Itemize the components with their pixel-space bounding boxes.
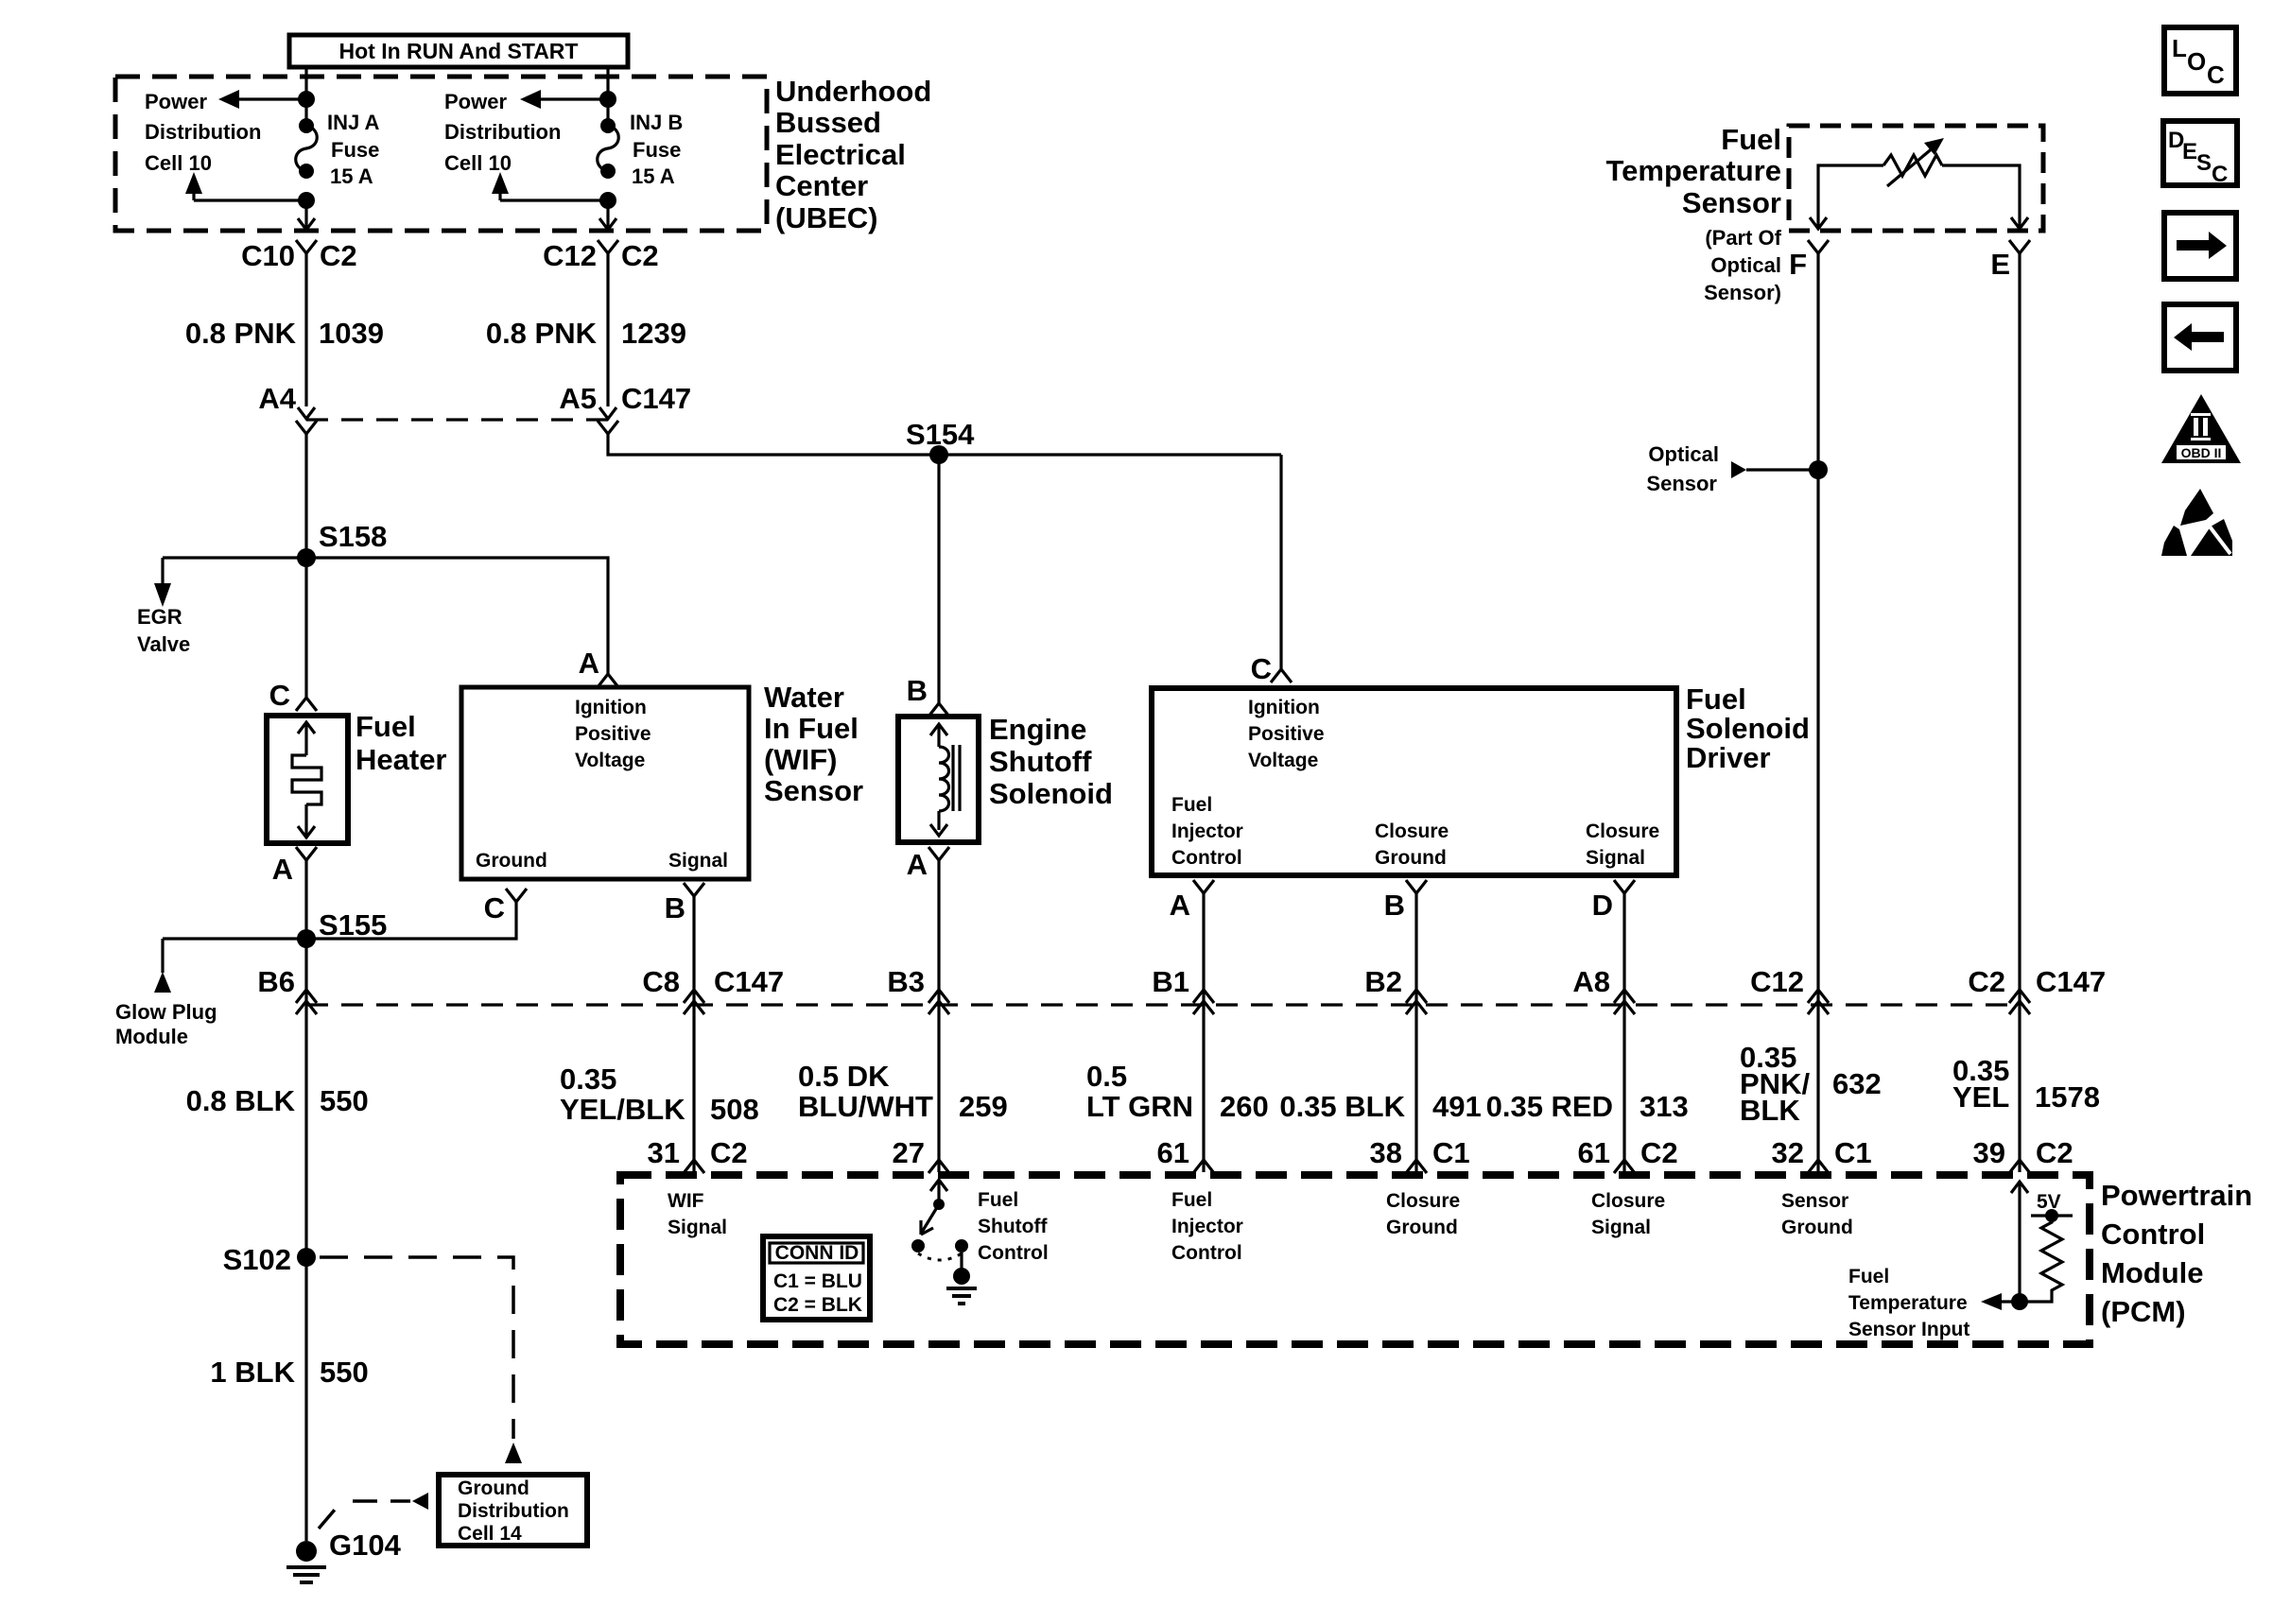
connector caret at PCM entry x=1498 <box>1406 1160 1427 1173</box>
component box: Fuel Solenoid Driver <box>1152 688 1676 875</box>
svg-text:A: A <box>907 848 928 881</box>
svg-text:Bussed: Bussed <box>775 106 881 139</box>
module dashed box: Powertrain Control Module (PCM) <box>620 1175 2090 1344</box>
svg-text:Cell 10: Cell 10 <box>145 151 212 175</box>
svg-text:Distribution: Distribution <box>145 120 261 144</box>
svg-text:C2: C2 <box>320 239 357 272</box>
svg-text:F: F <box>1789 248 1807 281</box>
svg-text:S: S <box>2196 150 2212 176</box>
svg-text:632: 632 <box>1832 1067 1882 1100</box>
svg-text:LT GRN: LT GRN <box>1086 1090 1193 1123</box>
pin A of Engine Shutoff Solenoid <box>928 847 949 860</box>
solenoid coil symbol <box>930 724 947 735</box>
wire: 0.5 DK BLU/WHT 259 down to PCM <box>937 860 940 1172</box>
wire: 0.8 BLK 550 from Fuel Heater pin A down to S102/G104 <box>304 860 307 1541</box>
svg-text:Sensor Input: Sensor Input <box>1848 1319 1969 1340</box>
svg-text:C10: C10 <box>241 239 295 272</box>
wire: A4 down to S158 and Fuel Heater <box>304 434 307 698</box>
svg-text:Positive: Positive <box>575 723 651 745</box>
svg-text:0.8 PNK: 0.8 PNK <box>486 317 598 350</box>
svg-text:Solenoid: Solenoid <box>989 777 1113 810</box>
svg-text:Injector: Injector <box>1171 1216 1243 1237</box>
connector C147 terminal A4 <box>298 407 315 419</box>
connector chevrons at B6 crossing <box>296 990 317 1003</box>
svg-text:Center: Center <box>775 169 868 202</box>
svg-text:Closure: Closure <box>1591 1190 1665 1212</box>
node: junction below fuse B <box>599 192 616 209</box>
svg-text:Driver: Driver <box>1686 741 1771 774</box>
svg-text:C2: C2 <box>1968 965 2005 998</box>
svg-text:Sensor: Sensor <box>1646 472 1717 495</box>
pin A of Fuel Solenoid Driver <box>1193 880 1214 893</box>
node: junction below fuse A <box>298 192 315 209</box>
svg-text:Ground: Ground <box>476 850 547 872</box>
connector caret at PCM entry x=993 <box>928 1160 949 1173</box>
connector chevrons at C2/C147 crossing <box>2009 990 2030 1003</box>
svg-text:S158: S158 <box>319 520 387 553</box>
svg-text:Module: Module <box>2101 1256 2204 1289</box>
svg-text:B3: B3 <box>887 965 925 998</box>
wire: 0.8 PNK 1039 <box>304 253 307 406</box>
sidebar icon: ESD warning triangle <box>2161 489 2232 556</box>
svg-text:(Part Of: (Part Of <box>1705 226 1781 250</box>
node: splice S155 <box>297 929 316 948</box>
svg-text:0.8 PNK: 0.8 PNK <box>185 317 297 350</box>
arrow to Power Distribution Cell 10 (left) <box>218 90 239 109</box>
svg-text:38: 38 <box>1370 1136 1402 1169</box>
svg-text:Fuse: Fuse <box>331 138 379 162</box>
svg-text:Cell 10: Cell 10 <box>444 151 512 175</box>
connector C147 terminal A5 <box>599 407 616 419</box>
connector chevrons at B3 crossing <box>928 990 949 1003</box>
wire: fuse A output exits UBEC <box>304 200 307 229</box>
5V supply rail <box>2031 1214 2073 1217</box>
svg-text:Distribution: Distribution <box>458 1500 569 1522</box>
pin E arrows and fork <box>2011 217 2028 229</box>
node: splice S102 <box>297 1248 316 1267</box>
wire: feed to Power Distribution (left) <box>237 97 306 100</box>
wire: feed from Power Distribution (right, arrow up) <box>500 199 608 201</box>
svg-text:32: 32 <box>1772 1136 1804 1169</box>
arrow from Optical Sensor <box>1731 461 1746 478</box>
node: junction on wire F (optical sensor tap) <box>1809 460 1828 479</box>
wire: fuse B output exits UBEC <box>606 200 609 229</box>
svg-text:A4: A4 <box>258 382 296 415</box>
svg-text:Closure: Closure <box>1586 821 1659 842</box>
wire: A5 down then east to FSD pin C <box>608 434 1281 455</box>
svg-text:Fuel: Fuel <box>1848 1266 1889 1287</box>
pin A of Fuel Heater <box>296 847 317 860</box>
svg-text:1578: 1578 <box>2035 1080 2100 1114</box>
svg-text:61: 61 <box>1157 1136 1189 1169</box>
pin D of Fuel Solenoid Driver <box>1614 880 1635 893</box>
svg-text:C1: C1 <box>1834 1136 1872 1169</box>
component: Fuel Heater <box>267 716 348 843</box>
fuse INJ A 15 A <box>299 118 314 133</box>
sidebar icon: OBD II triangle <box>2161 394 2241 463</box>
svg-text:C147: C147 <box>714 965 784 998</box>
svg-text:0.5: 0.5 <box>1086 1060 1127 1093</box>
connector C147 inline (dashed tie line) <box>306 418 608 421</box>
svg-text:Control: Control <box>978 1242 1049 1264</box>
svg-text:E: E <box>1990 248 2010 281</box>
switch: fuel shutoff control inside PCM <box>930 1180 947 1191</box>
svg-text:Electrical: Electrical <box>775 138 906 171</box>
connector caret at PCM entry x=1718 <box>1614 1160 1635 1173</box>
svg-text:Power: Power <box>145 90 207 113</box>
svg-text:Signal: Signal <box>1586 847 1645 869</box>
svg-text:BLU/WHT: BLU/WHT <box>798 1090 933 1123</box>
svg-text:(PCM): (PCM) <box>2101 1295 2186 1328</box>
svg-text:C2: C2 <box>621 239 659 272</box>
svg-text:Control: Control <box>1171 1242 1242 1264</box>
connector chevrons at B2 crossing <box>1406 990 1427 1003</box>
svg-text:C: C <box>484 891 505 924</box>
svg-text:Sensor: Sensor <box>1781 1190 1848 1212</box>
svg-text:Closure: Closure <box>1386 1190 1460 1212</box>
wire: S158 branch west to EGR Valve <box>163 556 306 559</box>
wire: S155 branch west to Glow Plug Module <box>163 937 306 940</box>
svg-text:A5: A5 <box>559 382 597 415</box>
thermistor element inside sensor <box>1818 165 1883 229</box>
svg-text:A: A <box>1170 889 1190 922</box>
svg-text:Signal: Signal <box>668 1217 727 1238</box>
svg-text:Ground: Ground <box>458 1477 529 1499</box>
pin C of Fuel Heater <box>296 698 317 711</box>
svg-text:15 A: 15 A <box>632 164 675 188</box>
wire: Hot box to fuse INJ A <box>304 67 307 126</box>
svg-text:Optical: Optical <box>1648 442 1719 466</box>
resistor: 5V pull-up <box>2020 1216 2062 1302</box>
svg-text:YEL/BLK: YEL/BLK <box>560 1093 685 1126</box>
sidebar icon: DESC <box>2163 121 2237 187</box>
ground G104 <box>296 1541 317 1562</box>
wire: 0.8 PNK 1239 <box>606 253 609 406</box>
node: junction above fuse A <box>298 91 315 108</box>
svg-text:B1: B1 <box>1152 965 1189 998</box>
wire: 0.35 RED 313 down to PCM <box>1622 893 1625 1172</box>
svg-text:C12: C12 <box>543 239 597 272</box>
svg-text:C: C <box>1251 652 1272 685</box>
svg-text:CONN ID: CONN ID <box>775 1242 859 1264</box>
wire: 0.35 BLK 491 down to PCM <box>1414 893 1417 1172</box>
svg-text:C12: C12 <box>1750 965 1804 998</box>
svg-text:313: 313 <box>1640 1090 1689 1123</box>
svg-text:1239: 1239 <box>621 317 686 350</box>
svg-text:C8: C8 <box>642 965 680 998</box>
sidebar icon: LOC <box>2164 27 2236 94</box>
node: junction above fuse B <box>599 91 616 108</box>
svg-text:A8: A8 <box>1572 965 1610 998</box>
svg-text:550: 550 <box>320 1356 369 1389</box>
svg-text:Ground: Ground <box>1386 1217 1458 1238</box>
svg-text:Fuel: Fuel <box>1171 1189 1212 1211</box>
connector caret at PCM entry x=1923 <box>1808 1160 1829 1173</box>
svg-text:Sensor): Sensor) <box>1704 281 1781 304</box>
svg-text:C: C <box>2207 60 2225 89</box>
svg-text:WIF: WIF <box>668 1190 704 1212</box>
variable-resistor arrow <box>1887 147 1935 186</box>
svg-text:Injector: Injector <box>1171 821 1243 842</box>
svg-text:C2: C2 <box>1640 1136 1678 1169</box>
svg-text:Fuel: Fuel <box>1171 794 1212 816</box>
wire: feed to Power Distribution (right) <box>539 97 608 100</box>
svg-text:0.5 DK: 0.5 DK <box>798 1060 890 1093</box>
svg-text:Ignition: Ignition <box>575 697 647 718</box>
svg-text:In Fuel: In Fuel <box>764 712 859 745</box>
svg-text:0.8 BLK: 0.8 BLK <box>186 1084 296 1117</box>
svg-text:S102: S102 <box>223 1243 291 1276</box>
svg-text:Fuel: Fuel <box>978 1189 1018 1211</box>
connector C2 terminal C12 (fork) <box>598 240 618 253</box>
svg-text:B: B <box>907 674 928 707</box>
svg-text:S155: S155 <box>319 908 387 942</box>
arrow from Glow Plug Module <box>154 972 171 993</box>
svg-text:(WIF): (WIF) <box>764 743 837 776</box>
wire: 0.5 LT GRN 260 down to PCM <box>1202 893 1205 1172</box>
dashed reference from G104 to Ground Distribution box <box>319 1501 410 1529</box>
sidebar icon: right arrow <box>2164 213 2236 279</box>
svg-text:61: 61 <box>1578 1136 1610 1169</box>
svg-text:B: B <box>665 891 685 924</box>
svg-text:0.35: 0.35 <box>560 1063 616 1096</box>
svg-text:Water: Water <box>764 681 844 714</box>
svg-text:O: O <box>2187 47 2206 76</box>
svg-text:260: 260 <box>1220 1090 1269 1123</box>
pin B of Engine Shutoff Solenoid <box>928 703 949 717</box>
svg-text:Fuel: Fuel <box>1721 123 1781 156</box>
wire: S158 branch east to WIF sensor pin A <box>306 558 608 674</box>
svg-text:INJ A: INJ A <box>327 111 380 134</box>
pin A of WIF sensor <box>598 674 618 687</box>
svg-text:EGR: EGR <box>137 605 182 629</box>
svg-text:Cell 14: Cell 14 <box>458 1523 522 1545</box>
svg-text:Control: Control <box>2101 1218 2205 1251</box>
svg-text:Fuse: Fuse <box>633 138 681 162</box>
wire: feed from Power Distribution (left, arrow up) <box>194 199 306 201</box>
svg-text:(UBEC): (UBEC) <box>775 201 878 234</box>
arrow to Power Distribution Cell 10 (right) <box>520 90 541 109</box>
svg-text:39: 39 <box>1973 1136 2005 1169</box>
svg-text:Heater: Heater <box>356 743 447 776</box>
pin C of Fuel Solenoid Driver <box>1271 669 1292 682</box>
wire: 0.35 PNK/BLK 632 from pin F down to PCM <box>1816 253 1819 1172</box>
svg-text:259: 259 <box>959 1090 1008 1123</box>
svg-text:C1: C1 <box>1432 1136 1470 1169</box>
svg-text:C2: C2 <box>2036 1136 2073 1169</box>
svg-text:Power: Power <box>444 90 507 113</box>
svg-text:Fuel: Fuel <box>356 710 416 743</box>
svg-text:B6: B6 <box>257 965 295 998</box>
svg-text:15 A: 15 A <box>330 164 373 188</box>
arrow down to EGR Valve <box>154 583 171 607</box>
svg-text:C: C <box>2212 162 2228 187</box>
connector C2 terminal C10 (fork) <box>296 240 317 253</box>
svg-text:Distribution: Distribution <box>444 120 561 144</box>
svg-text:Ground: Ground <box>1781 1217 1853 1238</box>
svg-text:Sensor: Sensor <box>764 774 863 807</box>
wire: 0.35 YEL 1578 from pin E down to PCM <box>2018 253 2021 1172</box>
svg-text:Shutoff: Shutoff <box>978 1216 1048 1237</box>
pin F arrows and fork <box>1810 217 1827 229</box>
svg-text:Ignition: Ignition <box>1248 697 1320 718</box>
svg-text:Signal: Signal <box>1591 1217 1651 1238</box>
svg-text:A: A <box>272 853 293 886</box>
svg-text:491: 491 <box>1432 1090 1482 1123</box>
connector chevrons at C12 crossing <box>1808 990 1829 1003</box>
svg-text:1 BLK: 1 BLK <box>210 1356 295 1389</box>
svg-text:Ground: Ground <box>1375 847 1447 869</box>
connector caret at PCM entry x=1273 <box>1193 1160 1214 1173</box>
connector C147 inline harness (dashed tie line across page) <box>306 1003 2020 1006</box>
svg-text:C1 = BLU: C1 = BLU <box>773 1270 862 1292</box>
power source box: Hot In RUN And START <box>289 35 628 67</box>
svg-text:L: L <box>2172 34 2187 62</box>
CONN ID legend box <box>763 1236 870 1320</box>
svg-text:508: 508 <box>710 1093 759 1126</box>
component dashed box: Fuel Temperature Sensor <box>1789 126 2043 231</box>
svg-text:Closure: Closure <box>1375 821 1449 842</box>
svg-text:Valve: Valve <box>137 632 190 656</box>
wire: down to FSD pin C <box>1279 455 1282 669</box>
svg-text:0.35 RED: 0.35 RED <box>1486 1090 1613 1123</box>
component box: Engine Shutoff Solenoid <box>898 717 979 842</box>
wire: S154 down to Engine Shutoff Solenoid pin B <box>937 455 940 703</box>
svg-text:C147: C147 <box>2036 965 2106 998</box>
svg-text:INJ B: INJ B <box>630 111 683 134</box>
svg-text:Temperature: Temperature <box>1606 154 1782 187</box>
svg-text:G104: G104 <box>329 1529 402 1562</box>
svg-text:550: 550 <box>320 1084 369 1117</box>
svg-text:C147: C147 <box>621 382 691 415</box>
pin B of WIF sensor (Signal) <box>684 883 704 896</box>
svg-text:Temperature: Temperature <box>1848 1292 1968 1314</box>
arrow: Fuel Temperature Sensor Input <box>2002 1300 2020 1303</box>
svg-text:Voltage: Voltage <box>575 750 645 771</box>
wire: 0.35 YEL/BLK 508 WIF signal down to PCM <box>692 896 695 1172</box>
connector caret at PCM entry x=734 <box>684 1160 704 1173</box>
svg-text:Control: Control <box>1171 847 1242 869</box>
component box: Water In Fuel (WIF) Sensor <box>461 687 749 879</box>
wire: S155 east to WIF sensor pin C (Ground) <box>306 902 516 939</box>
connector chevrons at B1 crossing <box>1193 990 1214 1003</box>
svg-text:B: B <box>1384 889 1405 922</box>
UBEC dashed box <box>115 77 767 231</box>
svg-text:Engine: Engine <box>989 713 1086 746</box>
svg-text:Voltage: Voltage <box>1248 750 1318 771</box>
svg-text:C2 = BLK: C2 = BLK <box>773 1294 862 1316</box>
svg-text:Optical: Optical <box>1710 253 1781 277</box>
pin C of WIF sensor <box>506 889 527 902</box>
svg-text:YEL: YEL <box>1952 1080 2009 1114</box>
svg-text:Fuel: Fuel <box>1686 682 1746 716</box>
svg-text:Signal: Signal <box>668 850 728 872</box>
svg-text:1039: 1039 <box>319 317 384 350</box>
svg-text:Hot In RUN And START: Hot In RUN And START <box>339 39 579 63</box>
pin B of Fuel Solenoid Driver <box>1406 880 1427 893</box>
svg-text:E: E <box>2182 139 2197 164</box>
svg-text:31: 31 <box>648 1136 680 1169</box>
ground symbol inside PCM (fuel shutoff control) <box>960 1253 963 1270</box>
connector caret at PCM entry x=2136 <box>2009 1160 2030 1173</box>
sidebar icon: left arrow <box>2164 304 2236 371</box>
svg-text:S154: S154 <box>906 418 975 451</box>
svg-text:BLK: BLK <box>1740 1094 1800 1127</box>
svg-text:B2: B2 <box>1364 965 1402 998</box>
svg-text:D: D <box>1592 889 1613 922</box>
svg-text:Glow Plug: Glow Plug <box>115 1000 217 1024</box>
connector chevrons at C8/C147 crossing <box>684 990 704 1003</box>
svg-text:Module: Module <box>115 1025 188 1048</box>
connector chevrons at A8 crossing <box>1614 990 1635 1003</box>
node: splice S154 <box>929 445 948 464</box>
wire: Hot box to fuse INJ B <box>606 67 609 126</box>
svg-text:27: 27 <box>893 1136 925 1169</box>
svg-text:5V: 5V <box>2037 1191 2061 1213</box>
5V reference circuit inside PCM <box>2011 1182 2028 1193</box>
svg-text:Sensor: Sensor <box>1682 186 1781 219</box>
svg-text:Solenoid: Solenoid <box>1686 712 1810 745</box>
svg-text:Positive: Positive <box>1248 723 1325 745</box>
reference box: Ground Distribution Cell 14 <box>439 1475 587 1546</box>
svg-text:0.35 BLK: 0.35 BLK <box>1279 1090 1405 1123</box>
svg-text:Powertrain: Powertrain <box>2101 1179 2252 1212</box>
svg-text:C: C <box>269 679 290 712</box>
fuse INJ B 15 A <box>600 118 616 133</box>
svg-text:Underhood: Underhood <box>775 75 931 108</box>
svg-text:C2: C2 <box>710 1136 748 1169</box>
node: splice S158 <box>297 548 316 567</box>
dashed reference from S102 to Ground Distribution <box>320 1257 513 1439</box>
svg-text:A: A <box>579 647 599 680</box>
svg-text:OBD II: OBD II <box>2181 445 2222 460</box>
svg-text:Shutoff: Shutoff <box>989 745 1092 778</box>
